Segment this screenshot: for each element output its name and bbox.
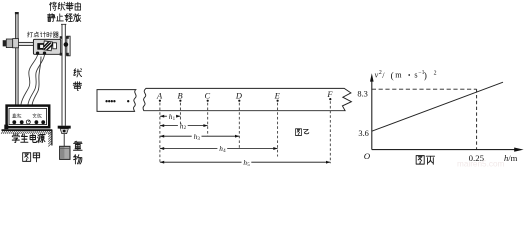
label text 图丙 (figure C) (416, 156, 424, 165)
power supply label 直流 (12, 114, 16, 118)
wire 1 (timer to supply) (21, 55, 38, 105)
dashed guide line from F (329, 101, 331, 163)
power supply label 交流 (33, 114, 37, 118)
clamp knob (3, 40, 7, 46)
label text 纸带 (paper tape) (74, 69, 82, 77)
dashed guide line from E (277, 103, 279, 157)
svg-text:E: E (274, 92, 280, 101)
svg-text:A: A (156, 92, 163, 101)
distance arrow h1 (A to B) (160, 115, 167, 117)
dashed guide line from A (159, 103, 161, 164)
timer right bracket (67, 36, 70, 56)
svg-text:B: B (177, 92, 182, 101)
svg-text:D: D (235, 92, 242, 101)
label text 学生电源 (student power supply) (12, 134, 19, 143)
label text 打点计时器 (ticker timer) (27, 32, 33, 37)
power supply knobs (12, 120, 16, 124)
dots on left fragment (105, 100, 107, 102)
distance arrow h5 (A to F) (160, 161, 242, 163)
label text 重物 (weight) (73, 141, 82, 150)
tape left fragment (97, 90, 136, 112)
stand rod (15, 12, 18, 105)
svg-text:C: C (205, 92, 211, 101)
timer box (33, 39, 60, 54)
label text 图甲 (figure A) (23, 153, 31, 162)
distance arrow h2 (A to C) (160, 125, 178, 127)
svg-text:): ) (424, 70, 427, 81)
timer terminals (36, 52, 39, 55)
dashed guide line from D (238, 103, 240, 149)
svg-text:3.6: 3.6 (358, 129, 368, 138)
distance arrow h4 (A to E) (160, 148, 218, 150)
svg-text:m: m (395, 71, 402, 80)
dashed guide line from B (179, 103, 181, 125)
data line v2 vs h (372, 82, 503, 131)
svg-text:F: F (326, 90, 333, 99)
timer white roller (53, 43, 57, 49)
timer hatched block (43, 41, 53, 51)
table hatching (under surface) (1, 131, 52, 134)
table edge line (51, 130, 53, 146)
dashed guide line from C (207, 103, 209, 136)
tape roller dot (64, 42, 69, 47)
svg-text:(: ( (391, 70, 394, 81)
svg-text:O: O (364, 151, 371, 161)
x-axis (372, 149, 515, 151)
main tape strip (143, 88, 351, 110)
svg-text:8.3: 8.3 (357, 89, 367, 98)
clamp bar (17, 42, 34, 45)
paper tape (vertical, through timer) (62, 24, 65, 126)
y-axis (371, 78, 373, 150)
table hatching (edge strip) (48, 132, 51, 147)
label text 将纸带由 (release tape...) (49, 2, 56, 10)
weight block 重物 (60, 146, 70, 159)
svg-text:mairen5.com: mairen5.com (457, 160, 505, 169)
svg-text:2: 2 (434, 71, 437, 77)
y-axis label v^2/(m s^-1)^2 (375, 70, 403, 81)
tape clip (58, 126, 71, 129)
label text 静止释放 (...from rest) (48, 14, 56, 22)
table surface line (2, 129, 53, 131)
wire 2 (timer to supply) (28, 55, 45, 105)
wire 3 (supply lead) (32, 57, 41, 106)
svg-text:h/m: h/m (504, 153, 518, 163)
timer coil (dark element) (37, 43, 43, 50)
distance arrow h3 (A to D) (160, 135, 192, 137)
dashed line at 8.3 (372, 88, 477, 90)
svg-text:s: s (414, 71, 417, 80)
dashed line at 0.25 (476, 89, 478, 149)
label text 图乙 (figure B) (295, 129, 301, 136)
power supply box (7, 106, 50, 128)
